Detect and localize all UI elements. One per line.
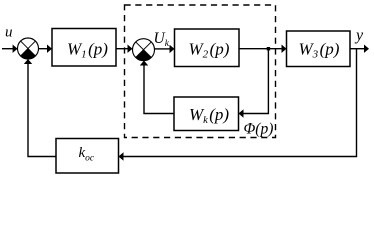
- svg-text:Wk (p): Wk (p): [189, 105, 229, 126]
- svg-text:W1 (p): W1 (p): [67, 39, 108, 60]
- svg-text:W2 (p): W2 (p): [189, 40, 230, 61]
- wire W3 output: [350, 48, 365, 50]
- wire W2 to W3: [239, 48, 282, 50]
- summing junction S1: [18, 38, 39, 59]
- block koc: [56, 139, 119, 174]
- block Wk: [174, 97, 239, 131]
- wire S2 to W2: [155, 48, 171, 50]
- svg-text:Φ(p): Φ(p): [244, 121, 274, 138]
- wire output feedback to koc: [123, 49, 357, 157]
- wire node to Wk: [243, 49, 268, 114]
- block W2: [175, 29, 240, 67]
- svg-text:W3 (p): W3 (p): [299, 40, 340, 61]
- wire W1 to S2: [116, 48, 128, 50]
- svg-text:y: y: [354, 27, 364, 44]
- wire S1 to W1: [39, 48, 48, 50]
- node junction dot: [267, 47, 270, 50]
- block W1: [52, 29, 116, 67]
- svg-text:u: u: [5, 25, 13, 41]
- wire Wk to S2: [144, 65, 174, 114]
- wire u input: [2, 48, 13, 50]
- summing junction S2: [133, 39, 155, 61]
- dashed box Phi(p): [125, 5, 276, 138]
- block W3: [287, 31, 351, 67]
- wire koc to S1: [28, 63, 56, 157]
